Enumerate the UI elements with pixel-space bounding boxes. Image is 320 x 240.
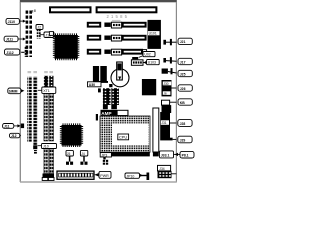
svg-text:JP3: JP3 bbox=[101, 153, 107, 157]
svg-text:J17: J17 bbox=[180, 60, 186, 64]
svg-text:U30: U30 bbox=[89, 83, 95, 87]
svg-text:J33.1: J33.1 bbox=[161, 153, 170, 157]
svg-text:J26: J26 bbox=[180, 87, 186, 91]
svg-text:U101: U101 bbox=[149, 32, 157, 36]
svg-text:J2: J2 bbox=[37, 26, 41, 30]
svg-text:J29: J29 bbox=[180, 138, 186, 142]
svg-text:J21: J21 bbox=[180, 40, 186, 44]
svg-text:J30: J30 bbox=[163, 82, 168, 86]
svg-text:J25: J25 bbox=[180, 72, 186, 76]
svg-text:J110: J110 bbox=[8, 20, 15, 24]
svg-text:J8: J8 bbox=[163, 91, 167, 95]
svg-text:J11: J11 bbox=[4, 125, 10, 129]
svg-text:J4: J4 bbox=[81, 152, 85, 156]
svg-text:SIMM: SIMM bbox=[9, 90, 18, 94]
svg-text:JP10: JP10 bbox=[126, 174, 134, 178]
svg-text:J12: J12 bbox=[11, 134, 17, 138]
svg-text:PWR: PWR bbox=[100, 174, 109, 178]
svg-text:21585: 21585 bbox=[107, 14, 130, 19]
svg-text:U02: U02 bbox=[144, 53, 150, 57]
svg-text:J5: J5 bbox=[67, 152, 71, 156]
svg-text:J34: J34 bbox=[159, 167, 164, 171]
svg-text:U103: U103 bbox=[148, 61, 156, 65]
svg-text:J10: J10 bbox=[43, 145, 49, 149]
svg-text:CPU: CPU bbox=[119, 135, 127, 140]
svg-text:AMP: AMP bbox=[101, 111, 111, 116]
svg-text:J28: J28 bbox=[180, 122, 186, 126]
svg-text:J111: J111 bbox=[6, 38, 13, 42]
svg-text:XT1: XT1 bbox=[43, 89, 50, 93]
svg-text:P8.1: P8.1 bbox=[182, 154, 189, 158]
svg-text:KB: KB bbox=[180, 101, 185, 105]
svg-text:J112: J112 bbox=[6, 51, 13, 55]
svg-text:J31: J31 bbox=[161, 121, 166, 125]
